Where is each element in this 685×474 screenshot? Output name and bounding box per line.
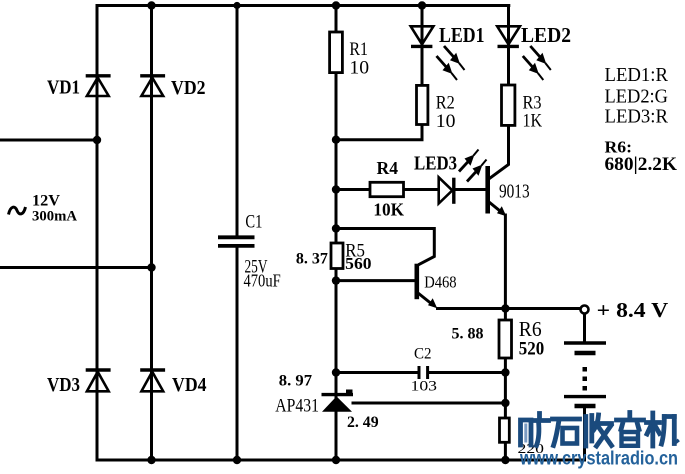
svg-text:680|2.2K: 680|2.2K	[605, 155, 678, 175]
LED2 light arrows	[523, 46, 551, 80]
svg-text:10: 10	[349, 58, 369, 79]
svg-text:AP431: AP431	[275, 396, 319, 417]
node R4 / main column	[332, 185, 340, 193]
resistor R6	[499, 320, 512, 358]
svg-text:470uF: 470uF	[244, 271, 281, 291]
node bottom bus / VD2 column	[147, 456, 155, 464]
wire Q1 collector	[489, 125, 509, 179]
node C2 / R6 column	[501, 368, 509, 376]
node emitter junction	[501, 304, 509, 312]
svg-text:www.crystalradio.cn: www.crystalradio.cn	[519, 449, 678, 470]
svg-text:VD3: VD3	[47, 374, 80, 396]
diode VD4	[140, 370, 165, 391]
wire bottom bus	[96, 459, 586, 462]
wire R6 column	[504, 309, 507, 462]
node bottom bus / R6 column	[501, 456, 509, 464]
svg-text:9013: 9013	[499, 181, 530, 203]
node Q2 base / main column	[332, 276, 340, 284]
svg-text:560: 560	[345, 254, 371, 273]
svg-text:300mA: 300mA	[32, 209, 77, 225]
battery output terminal	[581, 306, 589, 314]
svg-text:VD4: VD4	[172, 374, 207, 396]
wire left column VD1/VD3	[96, 4, 99, 462]
wire battery top	[583, 313, 586, 342]
wire emitter node to battery terminal	[436, 307, 581, 310]
svg-text:LED1:R: LED1:R	[605, 64, 669, 86]
resistor R4	[370, 182, 404, 196]
node top bus / VD2 column	[147, 1, 155, 9]
svg-text:R6:: R6:	[605, 138, 633, 157]
wire AC input top	[0, 139, 97, 142]
svg-text:D468: D468	[424, 273, 456, 292]
wire C1 column upper	[236, 4, 239, 236]
wire LED3 cathode to Q1 base	[454, 188, 487, 191]
svg-text:8. 97: 8. 97	[279, 372, 312, 389]
node bottom bus / C1 column	[233, 456, 241, 464]
transistor Q1 9013	[488, 166, 507, 216]
wire C1 column lower	[236, 248, 239, 462]
wire R4 to LED3 to Q1 base	[336, 188, 438, 191]
wire top bus	[96, 4, 511, 7]
resistor R1	[330, 32, 343, 73]
LED3 light arrows	[459, 150, 487, 182]
AC source tilde symbol	[9, 207, 26, 215]
node AC1 / VD1 column	[93, 136, 101, 144]
wire Q1 emitter down	[504, 214, 507, 311]
resistor R3	[502, 85, 515, 125]
svg-text:103: 103	[411, 379, 438, 395]
resistor R5	[331, 243, 343, 269]
node top bus / R1 column	[332, 1, 340, 9]
capacitor C2	[419, 366, 428, 379]
LED1 light arrows	[437, 46, 465, 80]
LED LED3	[439, 177, 454, 204]
transistor Q2 D468	[417, 264, 437, 309]
svg-text:1K: 1K	[523, 110, 543, 131]
capacitor C1	[218, 237, 255, 246]
node top bus / C1 column	[233, 2, 240, 9]
svg-text:R4: R4	[377, 158, 399, 178]
LED LED2	[497, 26, 520, 46]
node AC2 / VD2 column	[147, 263, 155, 271]
wire LED1/R2 branch down to node	[336, 4, 422, 140]
node C2 / main column	[332, 368, 340, 376]
wire Q2 collector	[336, 229, 434, 265]
svg-text:2. 49: 2. 49	[347, 414, 379, 431]
svg-text:VD2: VD2	[171, 77, 206, 99]
watermark logo 矿石收音机	[521, 413, 678, 447]
wire AP431 ref to R6 column	[352, 402, 506, 405]
svg-text:12V: 12V	[32, 193, 60, 210]
diode VD1	[86, 76, 111, 96]
node bottom bus / main column	[332, 456, 340, 464]
svg-text:VD1: VD1	[47, 76, 80, 98]
wire AC input bottom	[0, 266, 152, 269]
svg-text:5. 88: 5. 88	[452, 326, 484, 343]
wire second column VD2/VD4	[150, 4, 153, 462]
shunt regulator AP431	[322, 390, 354, 412]
wire battery bottom	[583, 407, 586, 462]
svg-text:LED2: LED2	[521, 23, 571, 47]
svg-text:C2: C2	[414, 346, 432, 363]
node AP431 ref / R6 column	[501, 399, 509, 407]
resistor R7 220	[500, 418, 510, 442]
svg-text:8. 37: 8. 37	[296, 251, 328, 268]
wire Q2 base	[336, 279, 416, 282]
svg-text:LED3: LED3	[414, 153, 457, 175]
node top bus / LED1 column	[418, 1, 426, 9]
LED LED1	[411, 26, 434, 46]
node R2 return / main column	[332, 136, 340, 144]
wire LED2/R3 branch	[507, 4, 510, 126]
resistor R2	[417, 85, 428, 124]
svg-text:520: 520	[519, 338, 544, 359]
battery BT1	[564, 343, 606, 406]
svg-text:C1: C1	[245, 213, 262, 233]
svg-text:LED1: LED1	[439, 23, 485, 47]
svg-text:10K: 10K	[373, 200, 404, 220]
node Q2 collector / main column	[332, 224, 340, 232]
diode VD3	[86, 370, 111, 391]
wire node to C2 left plate	[336, 371, 418, 374]
svg-text:LED2:G: LED2:G	[605, 86, 669, 108]
svg-text:LED3:R: LED3:R	[605, 105, 669, 127]
svg-text:10: 10	[436, 111, 456, 132]
wire C2 right plate to R6 node	[429, 371, 506, 374]
wire main column R1/R5/AP431	[335, 4, 338, 462]
diode VD2	[140, 76, 165, 96]
svg-text:+ 8.4 V: + 8.4 V	[597, 298, 669, 322]
